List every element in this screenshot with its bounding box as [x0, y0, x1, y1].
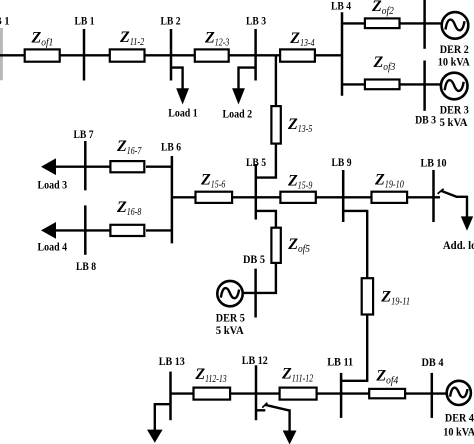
svg-text:DB 1: DB 1	[0, 15, 10, 28]
resistor Z_l5-6	[196, 192, 233, 203]
wire top row: edge to Z_of1	[0, 54, 26, 56]
svg-text:DER 5: DER 5	[216, 312, 245, 325]
wire LB6 to Z_l5-6	[172, 196, 197, 198]
wire Z_l5-6 to LB5	[231, 196, 256, 198]
wire LB4 to Z_of2	[342, 22, 366, 24]
resistor Z_l2-3	[195, 49, 229, 61]
svg-text:LB 1: LB 1	[75, 15, 95, 28]
wire LB12 to Z_l11-12	[256, 392, 281, 394]
svg-text:Load 3: Load 3	[38, 178, 68, 191]
wire LB9 to Z_l9-10	[343, 196, 373, 198]
bus DB 2 (cut at top)	[423, 0, 426, 49]
bus LB 9	[342, 170, 345, 222]
wire Z_of1 to LB1	[60, 54, 85, 56]
wire LB11 to Z_of4	[341, 392, 370, 394]
wire Z_l6-7 through LB7 to Load 3 arrow	[50, 165, 111, 167]
arrow Load 4	[41, 222, 56, 239]
wire Z_l9-11 to LB11	[341, 314, 367, 381]
svg-text:LB 10: LB 10	[421, 157, 447, 170]
bus LB 5	[255, 164, 258, 220]
wire Z_l6-8 through LB8 to Load 4 arrow	[50, 229, 111, 231]
bus DB 1 (grey, cut off at left edge)	[0, 28, 3, 80]
resistor Z_l9-11 (vertical)	[362, 278, 373, 314]
wire LB1 to Z_l1-2	[84, 54, 111, 56]
resistor Z_of2	[365, 18, 400, 28]
bus DB 4	[431, 373, 434, 418]
wire Z_l1-2 to LB2	[144, 54, 171, 56]
arrow Load 1	[176, 88, 189, 104]
resistor Z_of1	[25, 49, 60, 61]
bus DB 5	[254, 269, 257, 318]
resistor Z_l3-5 (vertical)	[271, 106, 280, 144]
svg-text:LB 6: LB 6	[161, 140, 181, 153]
arrow Load 3	[41, 158, 56, 175]
switch at LB10 (open blade)	[434, 189, 468, 198]
wire to LB12 switch load arrow	[288, 409, 290, 431]
svg-text:DB 5: DB 5	[243, 253, 265, 266]
svg-text:Load 1: Load 1	[168, 106, 198, 119]
generator DER 2	[442, 12, 469, 39]
wire junction to Z_l3-5	[275, 55, 277, 107]
wire LB6 to Z_l6-8	[146, 229, 172, 231]
svg-text:Load 2: Load 2	[223, 108, 253, 121]
bus LB 11	[340, 373, 343, 418]
svg-text:LB 13: LB 13	[159, 355, 185, 368]
wire LB5 to Z_l5-9	[256, 196, 282, 198]
wire Z_l2-3 to LB3	[228, 54, 256, 56]
svg-text:LB 2: LB 2	[161, 15, 181, 28]
wire load jog from LB13	[155, 404, 171, 430]
svg-text:LB 9: LB 9	[332, 156, 352, 169]
bus LB 12	[255, 365, 258, 420]
wire LB5 down-jog to Z_of5	[256, 211, 276, 229]
wire Z_l3-5 to LB5	[256, 143, 276, 178]
arrow Add. load	[461, 216, 473, 230]
resistor Z_l11-12	[280, 388, 317, 400]
wire LB9 down-jog to Z_l9-11	[343, 211, 367, 279]
arrow LB13 load	[147, 430, 163, 443]
svg-text:Load 4: Load 4	[38, 240, 68, 253]
svg-text:DER 2: DER 2	[440, 43, 469, 56]
wire Z_l11-12 to LB11	[316, 392, 341, 394]
svg-text:LB 7: LB 7	[74, 128, 94, 141]
wire LB4 to Z_of3	[342, 83, 366, 85]
wire LB13 to Z_l12-13	[171, 392, 196, 394]
svg-text:10 kVA: 10 kVA	[438, 56, 471, 69]
resistor Z_l5-9	[280, 192, 315, 203]
bus LB 4	[341, 12, 344, 96]
wire Z_of4 to DB4/DER4	[404, 392, 448, 394]
wire to Add. load arrow	[466, 196, 468, 218]
bus LB 1	[83, 29, 86, 81]
resistor Z_of3	[365, 80, 400, 90]
arrow LB12 switch load	[283, 431, 297, 444]
bus LB 3	[254, 29, 257, 81]
bus LB 6	[171, 156, 174, 243]
generator DER 3	[441, 73, 468, 100]
bus DB 3	[423, 61, 426, 111]
wire LB6 to Z_l6-7	[146, 165, 172, 167]
wire LB2 to Z_l2-3	[171, 54, 196, 56]
resistor Z_l1-2	[110, 49, 145, 61]
svg-text:5 kVA: 5 kVA	[440, 116, 469, 129]
bus LB 13	[169, 372, 172, 421]
svg-text:5 kVA: 5 kVA	[216, 324, 245, 337]
generator DER 5	[217, 281, 242, 306]
resistor Z_l12-13	[194, 388, 231, 400]
wire Z_l5-9 to LB9	[315, 196, 343, 198]
bus LB 8	[84, 205, 87, 254]
svg-text:LB 3: LB 3	[246, 15, 266, 28]
svg-text:LB 5: LB 5	[246, 156, 266, 169]
svg-text:10 kVA: 10 kVA	[443, 426, 474, 439]
resistor Z_of4	[369, 389, 405, 398]
svg-text:LB 8: LB 8	[76, 260, 96, 273]
wire Z_l9-10 to LB10	[406, 196, 434, 198]
wire Z_l12-13 to LB12	[229, 392, 256, 394]
bus LB 10	[432, 170, 435, 222]
bus LB 7	[84, 141, 87, 190]
wire Load 2 jog from LB3	[239, 68, 256, 90]
svg-text:DER 3: DER 3	[440, 103, 469, 116]
wire Z_of3 to DER3	[399, 83, 442, 85]
switch at LB12 (open blade)	[256, 403, 289, 411]
arrow Load 2	[232, 88, 245, 104]
wire Z_l3-4 to LB4	[314, 54, 342, 56]
generator DER 4	[447, 381, 471, 405]
wire Load 1 jog from LB2	[171, 68, 183, 90]
wire Z_of5 to DB5/DER5	[243, 263, 276, 293]
svg-text:DB 3: DB 3	[415, 113, 436, 126]
wire Z_of2 to DER2	[399, 22, 443, 24]
resistor Z_of5 (vertical)	[271, 228, 280, 263]
resistor Z_l9-10	[372, 192, 408, 203]
svg-text:LB 12: LB 12	[242, 354, 268, 367]
svg-text:Add. load: Add. load	[443, 239, 474, 252]
resistor Z_l6-7	[110, 161, 144, 172]
resistor Z_l6-8	[110, 225, 144, 236]
svg-text:LB 4: LB 4	[331, 0, 351, 13]
svg-text:LB 11: LB 11	[327, 356, 353, 369]
resistor Z_l3-4	[280, 49, 315, 61]
svg-text:DER 4: DER 4	[445, 412, 474, 425]
bus LB 2	[170, 29, 173, 81]
svg-text:DB 4: DB 4	[422, 356, 444, 369]
wire LB3 to Z_l3-4 (junction at x=275.9)	[256, 54, 281, 56]
